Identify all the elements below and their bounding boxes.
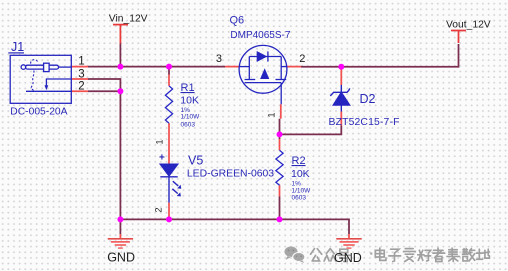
svg-text:2: 2 (78, 81, 84, 93)
svg-text:J1: J1 (11, 40, 24, 54)
svg-text:10K: 10K (291, 168, 310, 180)
svg-text:DC-005-20A: DC-005-20A (10, 106, 67, 117)
svg-text:1: 1 (155, 139, 165, 144)
svg-text:R1: R1 (181, 82, 195, 94)
svg-text:3: 3 (78, 68, 84, 80)
svg-text:R2: R2 (292, 155, 306, 167)
svg-text:1/10W: 1/10W (181, 114, 201, 121)
svg-text:LED-GREEN-0603: LED-GREEN-0603 (187, 168, 274, 179)
svg-text:1/10W: 1/10W (292, 188, 312, 195)
svg-text:Vout_12V: Vout_12V (446, 19, 491, 30)
svg-text:1: 1 (78, 56, 84, 68)
svg-text:+: + (159, 153, 165, 164)
svg-text:Q6: Q6 (230, 14, 245, 26)
svg-text:3: 3 (216, 53, 222, 65)
svg-text:2: 2 (299, 53, 305, 65)
svg-text:Vin_12V: Vin_12V (109, 14, 148, 25)
svg-text:0603: 0603 (181, 121, 196, 128)
svg-text:GND: GND (334, 251, 362, 265)
svg-text:GND: GND (107, 251, 135, 265)
svg-text:D2: D2 (360, 92, 376, 106)
svg-text:2: 2 (154, 207, 164, 212)
svg-text:1: 1 (267, 112, 277, 117)
svg-text:10K: 10K (180, 95, 199, 107)
svg-text:0603: 0603 (292, 195, 307, 202)
svg-text:V5: V5 (188, 154, 203, 168)
svg-text:BZT52C15-7-F: BZT52C15-7-F (329, 117, 400, 128)
svg-text:DMP4065S-7: DMP4065S-7 (230, 30, 290, 41)
svg-text:1%: 1% (292, 181, 302, 188)
